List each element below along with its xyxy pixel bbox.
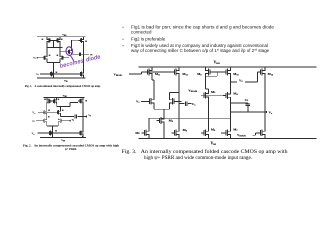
svg-text:VSS: VSS bbox=[211, 142, 217, 147]
svg-text:VBIAS1: VBIAS1 bbox=[114, 72, 124, 76]
figure 2: cascode op amp schematic bbox=[23, 95, 120, 151]
figure 1: conventional op amp schematic bbox=[25, 34, 101, 88]
purple handwritten annotation bbox=[59, 46, 101, 69]
svg-text:way of connecting miller C bet: way of connecting miller C between o/p o… bbox=[131, 48, 270, 53]
capacitor Cc plate A (fig1) bbox=[78, 52, 80, 56]
junction mirror right (fig1) bbox=[60, 47, 61, 48]
wire M15 drain up (fig3) bbox=[178, 118, 180, 129]
svg-text:M: M bbox=[48, 117, 50, 119]
wire V3 to M14 gate (fig3) bbox=[230, 72, 257, 82]
svg-text:Vo: Vo bbox=[269, 110, 273, 114]
svg-text:M11: M11 bbox=[155, 72, 161, 76]
wire tail join (fig1) bbox=[47, 60, 60, 72]
wire input stub left (fig2) bbox=[36, 120, 42, 122]
svg-text:M4: M4 bbox=[233, 91, 238, 95]
svg-text:VDD: VDD bbox=[214, 61, 220, 66]
wire VSS rail (fig3) bbox=[139, 138, 317, 140]
wire tail to rail (fig1) bbox=[52, 76, 54, 78]
wire M11-M12 gate tie (fig3) bbox=[144, 71, 171, 73]
transistor M7 (fig3) bbox=[223, 129, 230, 137]
svg-text:M7: M7 bbox=[233, 128, 238, 132]
svg-text:high ψ+ PSRR and wide common-m: high ψ+ PSRR and wide common-mode input … bbox=[144, 155, 252, 161]
wire VSS rail (fig1) bbox=[37, 77, 85, 79]
bullet text block bbox=[122, 24, 274, 52]
capacitor C1 plate A (fig3) bbox=[184, 101, 186, 105]
svg-text:M6: M6 bbox=[211, 127, 216, 131]
transistor M2 (fig3) bbox=[170, 97, 177, 105]
wire output vertical (fig1) bbox=[82, 43, 84, 72]
wire compensation cap link (fig1) bbox=[72, 53, 84, 55]
wire diff tail join (fig2) bbox=[47, 123, 58, 131]
wire V- stub (fig3) bbox=[177, 100, 182, 102]
svg-text:M3: M3 bbox=[211, 90, 216, 94]
svg-text:M: M bbox=[85, 101, 87, 103]
wire M3 source drop (fig3) bbox=[208, 99, 210, 118]
wire M4 lower node (fig3) bbox=[229, 117, 231, 119]
wire V+ stub (fig3) bbox=[141, 100, 146, 102]
svg-text:Fig. 1. A conventional inter: Fig. 1. A conventional internally compen… bbox=[25, 85, 101, 88]
transistor M14 (fig3) bbox=[258, 68, 265, 76]
transistor M6 circled driver (fig1) bbox=[67, 49, 72, 54]
wire tail to rail (fig3) bbox=[163, 125, 165, 139]
junction mirror left (fig1) bbox=[46, 47, 47, 48]
svg-text:Ca: Ca bbox=[192, 102, 196, 106]
svg-text:M5: M5 bbox=[135, 131, 140, 135]
junction M6 gate (fig1) bbox=[60, 51, 61, 52]
wire M11 drain drop (fig3) bbox=[152, 76, 154, 80]
wire input stub right (fig2) bbox=[63, 120, 70, 122]
wire M6 gate from mirror (fig1) bbox=[60, 51, 67, 53]
svg-text:becomes diode: becomes diode bbox=[59, 54, 101, 70]
transistor M5 (fig3) bbox=[141, 129, 148, 137]
wire M12 drain column (fig3) bbox=[178, 76, 180, 118]
junction C2 on output line (fig3) bbox=[247, 111, 248, 112]
transistor M11 (fig3) bbox=[144, 68, 151, 76]
capacitor C1 plate B (fig3) bbox=[186, 101, 188, 105]
svg-text:Fig. 3. An internally compen: Fig. 3. An internally compensated folded… bbox=[122, 148, 288, 155]
wire input stub left (fig1) bbox=[38, 57, 42, 59]
junction M4-C2 tap (fig3) bbox=[230, 102, 231, 103]
wire VBIAS1 to M11 gate (fig3) bbox=[129, 72, 145, 74]
wire mirror gate tie (fig2) bbox=[51, 100, 53, 102]
junction M2-column (fig3) bbox=[178, 92, 179, 93]
wire M3 rail stub (fig1) bbox=[46, 37, 48, 38]
wire input stub right (fig1) bbox=[65, 57, 69, 59]
wire M2 drain up (fig3) bbox=[170, 93, 179, 98]
wire VDD rail (fig3) bbox=[139, 66, 317, 68]
junction output node (fig1) bbox=[83, 54, 84, 55]
wire M10 to rail (fig3) bbox=[264, 137, 266, 139]
wire bias line to 2nd stage (fig2) bbox=[37, 132, 78, 134]
transistor M3 (fig3) bbox=[201, 91, 208, 99]
svg-text:VBIAS6: VBIAS6 bbox=[188, 89, 198, 93]
svg-text:M: M bbox=[61, 39, 63, 41]
capacitor C2 plate B (fig3) bbox=[246, 104, 250, 106]
svg-text:VSS: VSS bbox=[64, 79, 68, 82]
svg-text:ψ+ PSRR.: ψ+ PSRR. bbox=[65, 148, 77, 151]
wire tail/2nd-stage rail stubs (fig2) bbox=[52, 135, 83, 137]
transistor M9 tail (fig3) bbox=[157, 117, 164, 125]
wire M5 drain up (fig3) bbox=[148, 118, 150, 129]
wire M6 drain to M7 gate (fig1) bbox=[72, 40, 79, 49]
wire output line Vo (fig3) bbox=[230, 111, 266, 113]
wire M4 rail stub (fig1) bbox=[59, 37, 61, 38]
wire cascode drops (fig2) bbox=[47, 107, 61, 119]
wire M8 diode tie (fig3) bbox=[205, 72, 217, 76]
svg-text:M13: M13 bbox=[233, 72, 239, 76]
junction Vo column (fig3) bbox=[264, 111, 265, 112]
transistor M12 cascode right (fig2) bbox=[56, 110, 61, 115]
capacitor Cc plate B (fig1) bbox=[80, 52, 82, 56]
wire output stub (fig1) bbox=[83, 53, 89, 55]
wire M5 to rail (fig3) bbox=[148, 137, 150, 139]
transistor M11 cascode left (fig2) bbox=[42, 110, 47, 115]
figure 3: folded cascode op amp schematic bbox=[114, 61, 317, 161]
wire VBIAS5 to M10 gate (fig3) bbox=[252, 133, 257, 135]
svg-text:M12: M12 bbox=[182, 72, 188, 76]
svg-text:M9: M9 bbox=[169, 118, 174, 122]
wire VSS rail (fig2) bbox=[40, 137, 86, 139]
wire mirror line (fig3) bbox=[149, 117, 231, 119]
bullet marker 1 bbox=[122, 27, 123, 28]
wire right mirror drop (fig2) bbox=[56, 103, 58, 106]
svg-text:VB2: VB2 bbox=[32, 112, 35, 114]
svg-text:C2: C2 bbox=[245, 98, 249, 102]
wire cascode gate line (fig2) bbox=[38, 111, 56, 113]
transistor M10 output NMOS (fig3) bbox=[258, 129, 265, 137]
junction mirror line left (fig3) bbox=[178, 118, 179, 119]
svg-text:VB: VB bbox=[36, 74, 39, 76]
wire M6 drain up (fig3) bbox=[208, 118, 210, 129]
transistor M4 (fig1 mirror PMOS right) bbox=[55, 38, 60, 43]
svg-text:M: M bbox=[49, 55, 51, 57]
bullet marker 3 bbox=[122, 45, 123, 46]
wire M15 to rail (fig3) bbox=[178, 137, 180, 139]
wire M7 rail stub (fig1) bbox=[82, 37, 84, 38]
wire diff sources (fig3) bbox=[154, 105, 170, 116]
transistor M1 diff left (fig2) bbox=[42, 118, 47, 123]
junction output line left (fig3) bbox=[230, 111, 231, 112]
wire M6 to rail (fig3) bbox=[208, 137, 210, 139]
junction M13 drain / V3 (fig3) bbox=[230, 81, 231, 82]
junction output cross (fig2) bbox=[82, 116, 83, 117]
capacitor C2 plate A (fig3) bbox=[246, 103, 250, 105]
transistor M4 (fig3) bbox=[223, 92, 230, 100]
svg-text:VB5: VB5 bbox=[32, 133, 35, 135]
transistor M5 tail source (fig1) bbox=[49, 72, 54, 77]
capacitor Cc plate B (fig2) bbox=[75, 115, 77, 119]
wire bias line (fig1) bbox=[40, 73, 78, 75]
svg-text:M14: M14 bbox=[268, 72, 274, 76]
transistor M1 (fig1 diff pair left) bbox=[42, 55, 47, 60]
wire C2 top (fig3) bbox=[230, 102, 247, 104]
terminal circle Vin2 (fig2) bbox=[70, 120, 71, 121]
wire VDD rail (fig2) bbox=[43, 97, 84, 99]
svg-text:VSS: VSS bbox=[61, 139, 65, 142]
svg-text:M: M bbox=[58, 99, 60, 101]
transistor M2 (fig1 diff pair right) bbox=[60, 55, 65, 60]
wire M7 gate stub (fig3) bbox=[221, 132, 223, 134]
transistor M7 right PMOS (fig2) bbox=[78, 99, 83, 104]
transistor M3 (fig1 mirror PMOS left) bbox=[47, 38, 52, 43]
wire M1 drain up (fig3) bbox=[153, 80, 155, 97]
wire M8-M13 gate tie (fig3) bbox=[213, 71, 223, 73]
svg-text:M: M bbox=[42, 39, 44, 41]
transistor M15 (fig3) bbox=[172, 129, 179, 137]
svg-text:M: M bbox=[62, 110, 64, 112]
wire M8 drain drop (fig3) bbox=[205, 76, 208, 91]
wire top rail stubs (fig3) bbox=[152, 67, 265, 68]
terminal circle Vin- (fig1) bbox=[36, 56, 39, 59]
wire VDD rail (fig1) bbox=[37, 36, 85, 38]
wire M8 to rail (fig1) bbox=[82, 76, 84, 78]
svg-text:M: M bbox=[57, 55, 59, 57]
svg-text:M: M bbox=[48, 110, 50, 112]
wire tail to rail (fig2) bbox=[52, 136, 82, 137]
wire M14 drain column (fig3) bbox=[264, 76, 266, 129]
svg-text:M: M bbox=[44, 99, 46, 101]
annotation pointer tail bbox=[70, 55, 74, 61]
wire cascode gate line (fig3) bbox=[201, 94, 223, 96]
transistor M12 (fig3) bbox=[172, 68, 179, 76]
transistor M8 second stage NMOS (fig1) bbox=[79, 72, 84, 77]
svg-text:Fig1 is bad for psrr, since th: Fig1 is bad for psrr, since the cap shor… bbox=[131, 24, 275, 29]
svg-text:M6: M6 bbox=[183, 128, 188, 132]
svg-text:Fig2 is preferable: Fig2 is preferable bbox=[131, 36, 166, 41]
svg-text:V1: V1 bbox=[136, 99, 140, 103]
svg-text:V1: V1 bbox=[33, 58, 36, 60]
annotation ellipse around M6 bbox=[66, 46, 73, 55]
wire C2 bottom (fig3) bbox=[247, 106, 249, 112]
wire right PMOS drain drop (fig2) bbox=[82, 103, 84, 131]
junction C1 tap (fig3) bbox=[178, 103, 179, 104]
bullet marker 2 bbox=[122, 39, 123, 40]
transistor M1 (fig3) bbox=[146, 97, 153, 105]
transistor M7 second stage load PMOS (fig1) bbox=[79, 38, 84, 43]
wire C1 link (fig3) bbox=[179, 103, 191, 105]
wire mirror tie node (fig1) bbox=[47, 47, 63, 49]
transistor M8 (fig3) bbox=[205, 68, 212, 76]
transistor M14 second stage NMOS (fig2) bbox=[78, 131, 83, 136]
capacitor Cc plate A (fig2) bbox=[74, 115, 76, 119]
svg-text:connected: connected bbox=[131, 29, 152, 34]
svg-text:V1: V1 bbox=[32, 121, 35, 123]
wire M13 drain drop (fig3) bbox=[229, 76, 231, 92]
svg-text:M: M bbox=[85, 41, 87, 43]
wire M7 to rail (fig3) bbox=[229, 128, 231, 139]
wire M4 drain drop (fig3) bbox=[229, 100, 231, 129]
svg-text:V3: V3 bbox=[239, 78, 243, 82]
transistor M6 (fig3) bbox=[201, 129, 208, 137]
svg-text:M: M bbox=[55, 131, 57, 133]
wire M3-M4 gate tie (fig1) bbox=[52, 40, 55, 47]
transistor M2 diff right (fig2) bbox=[58, 118, 63, 123]
transistor M9 mirror PMOS left (fig2) bbox=[47, 99, 52, 104]
wire fold node (fig2) bbox=[57, 98, 83, 107]
transistor M13 (fig3) bbox=[223, 68, 230, 76]
wire left mirror drop (fig2) bbox=[46, 103, 48, 110]
wire M3 drain drop (fig1) bbox=[46, 43, 48, 56]
svg-text:V0: V0 bbox=[88, 115, 91, 117]
wire mirror rail stubs (fig2) bbox=[47, 98, 56, 99]
junction M3/M6 on mirror line (fig3) bbox=[208, 118, 209, 119]
svg-text:M8: M8 bbox=[197, 72, 202, 76]
transistor M13 tail source (fig2) bbox=[48, 131, 53, 136]
transistor M10 mirror PMOS right (fig2) bbox=[52, 99, 57, 104]
svg-text:V2: V2 bbox=[72, 119, 75, 121]
wire output line (fig2) bbox=[61, 116, 87, 118]
svg-text:VBIAS5: VBIAS5 bbox=[237, 133, 247, 137]
wire M4 drain drop (fig1) bbox=[59, 43, 61, 56]
